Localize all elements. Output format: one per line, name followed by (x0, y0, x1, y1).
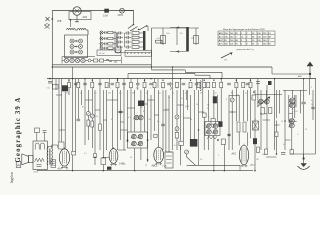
wire (99, 33, 101, 49)
capacitor C1 (74, 82, 78, 84)
svg-text:0,1: 0,1 (188, 88, 191, 90)
wire (170, 27, 186, 29)
wire (87, 90, 89, 112)
mains cord entry (45, 24, 50, 27)
wire (183, 117, 190, 119)
resistor R57 (252, 95, 256, 100)
wire (134, 90, 136, 115)
fuse resistor bumps (67, 28, 76, 30)
wire riser (184, 70, 186, 72)
capacitor C32 (227, 133, 231, 135)
connector bar (143, 31, 145, 51)
tube heater H1 (64, 58, 68, 62)
wire riser (194, 74, 196, 76)
svg-text:A02: A02 (83, 15, 88, 19)
svg-text:50: 50 (80, 93, 82, 95)
svg-text:gemessen bei 1 g: gemessen bei 1 g (237, 49, 255, 51)
wire (223, 145, 225, 171)
wire (229, 95, 239, 97)
wire heater bus (52, 64, 151, 66)
capacitor C9 (182, 82, 186, 84)
resistor R3 (91, 82, 94, 87)
tube V4 AK2 (239, 145, 248, 164)
wire (120, 90, 122, 140)
wire (247, 132, 249, 146)
svg-text:a: a (110, 88, 111, 90)
wire (118, 149, 126, 151)
capacitor C11 (118, 36, 120, 39)
resistor R11 (189, 82, 192, 87)
wire (140, 148, 142, 160)
mains switch S1 (128, 25, 134, 29)
field coil box (33, 141, 47, 170)
resistor R41 (100, 59, 104, 62)
junction (224, 170, 226, 172)
wire (186, 90, 188, 100)
svg-text:0,05: 0,05 (294, 111, 298, 113)
wire (228, 95, 230, 150)
voltage table (218, 31, 275, 46)
resistor R17 (235, 82, 238, 87)
svg-text:C50: C50 (47, 88, 50, 90)
resistor R40 (59, 142, 65, 149)
wire (299, 90, 301, 114)
speaker LS (22, 154, 29, 165)
wire (176, 131, 178, 150)
junction (94, 157, 96, 159)
wire (121, 129, 128, 131)
wire (213, 90, 215, 122)
wire (176, 119, 178, 127)
wire (309, 79, 311, 95)
capacitor C14 (126, 31, 128, 34)
wire (150, 95, 152, 140)
coupling capacitor C51 (35, 128, 40, 133)
wire (124, 33, 126, 47)
wire screen bus (152, 69, 186, 71)
coil L11 (213, 96, 217, 103)
resistor R5 (116, 82, 119, 87)
svg-text:50: 50 (311, 104, 313, 106)
wire (186, 28, 188, 45)
coil L13 (268, 81, 272, 85)
wire (291, 108, 293, 119)
wire (109, 79, 111, 88)
capacitor C31 (161, 123, 165, 125)
resistor R11 (132, 36, 139, 39)
wire (117, 79, 119, 150)
svg-text:50: 50 (130, 157, 132, 159)
wire (217, 95, 219, 121)
resistor R18 (242, 82, 245, 87)
wire (257, 79, 259, 108)
svg-text:GL GL: GL GL (99, 53, 106, 55)
resistor R42 (101, 158, 106, 165)
wire (289, 113, 293, 115)
wire (157, 79, 159, 88)
wire (52, 10, 133, 12)
capacitor C20 (104, 42, 106, 45)
svg-text:4: 4 (255, 119, 256, 121)
wire (102, 156, 109, 158)
wire (266, 104, 268, 150)
wire (303, 79, 305, 102)
wire (199, 111, 205, 113)
junction (276, 153, 278, 155)
svg-text:50: 50 (200, 93, 202, 95)
svg-text:50: 50 (190, 119, 192, 121)
svg-text:25: 25 (305, 129, 307, 131)
svg-text:4504: 4504 (185, 106, 189, 108)
wire (116, 33, 118, 47)
wire (95, 109, 100, 111)
resistor R7 (143, 82, 146, 87)
wire (166, 151, 173, 153)
wire (140, 90, 142, 115)
wire (238, 95, 240, 121)
wire (176, 28, 178, 45)
wire (170, 51, 186, 53)
lamp housing box (69, 12, 91, 20)
wire (116, 33, 118, 49)
wire riser (209, 75, 211, 78)
svg-text:2: 2 (218, 155, 219, 157)
wire (87, 126, 89, 140)
coil L20 (106, 59, 112, 62)
svg-text:Geographic 39 A: Geographic 39 A (15, 97, 22, 163)
wire (276, 121, 278, 133)
wire (255, 94, 282, 96)
resistor R19 (108, 37, 113, 39)
svg-text:30: 30 (168, 97, 170, 99)
svg-text:0,1: 0,1 (66, 93, 69, 95)
svg-text:8: 8 (143, 111, 144, 113)
wire (231, 90, 233, 98)
wire (247, 90, 249, 121)
mains plug X1 (46, 17, 50, 21)
wire (147, 90, 149, 162)
wire (250, 79, 252, 139)
svg-text:ABC1: ABC1 (152, 164, 159, 167)
wire bus segment (195, 74, 210, 76)
junction (127, 140, 129, 142)
svg-text:Ingelen: Ingelen (10, 172, 14, 183)
tube heater H3 (75, 58, 79, 62)
wire (207, 136, 209, 151)
resistor R12 (197, 82, 200, 87)
resistor R45 (179, 141, 184, 145)
svg-text:0,5: 0,5 (119, 93, 122, 95)
blocking capacitor C41 (107, 167, 111, 170)
tube heater H2 (70, 58, 74, 62)
junction (260, 113, 262, 115)
wire (195, 28, 197, 45)
selector contact pair row 3 (70, 50, 74, 54)
svg-text:30: 30 (82, 107, 84, 109)
wire (72, 67, 74, 171)
wire (239, 165, 241, 170)
wire (291, 90, 293, 98)
coil L21 (200, 81, 201, 91)
electrolytic capacitor C30 plate (186, 27, 189, 52)
antenna (309, 62, 311, 79)
terminal strip box (97, 50, 121, 56)
wire (124, 11, 133, 25)
resistor R13 (203, 82, 206, 87)
wire (276, 90, 278, 118)
wire (91, 127, 93, 148)
wire bus segment (185, 71, 222, 73)
wire (64, 92, 66, 149)
wire AVC (290, 153, 316, 155)
wire (151, 28, 153, 67)
svg-text:50: 50 (146, 93, 148, 95)
switch contact SW1 (100, 31, 103, 34)
wire (291, 128, 293, 150)
IF transformer coil L1a (134, 115, 139, 120)
selector contact pair row 1 (70, 39, 74, 43)
wire (154, 79, 156, 131)
junction (72, 78, 74, 80)
resistor R22 (156, 40, 163, 43)
wire (37, 170, 39, 171)
svg-text:0,1: 0,1 (207, 105, 210, 107)
svg-text:0,1: 0,1 (283, 144, 286, 146)
connector strip with dots (125, 50, 152, 56)
coil L12 (218, 121, 222, 127)
svg-text:5000: 5000 (262, 154, 266, 156)
IF transformer T3 (259, 99, 264, 104)
svg-text:0,1: 0,1 (96, 116, 99, 118)
svg-text:0,1: 0,1 (94, 93, 97, 95)
resistor R44 (202, 113, 206, 117)
switch contact SW4 (100, 47, 103, 50)
capacitor C53 (281, 152, 286, 154)
wire (147, 26, 149, 31)
wire (266, 90, 268, 105)
svg-text:0,5A: 0,5A (103, 15, 108, 18)
wire (115, 52, 152, 54)
svg-text:1k2: 1k2 (114, 60, 119, 63)
wire (274, 79, 276, 150)
resistor R19 (249, 82, 252, 87)
wire (168, 95, 170, 152)
capacitor C10 (118, 32, 120, 35)
resistor R62 (94, 154, 97, 158)
bias network block frame (114, 31, 116, 53)
IF transformer T1 (128, 132, 148, 148)
svg-text:0,3: 0,3 (162, 88, 165, 90)
wire (155, 114, 159, 116)
coil L14 (253, 138, 257, 144)
svg-text:ANT: ANT (298, 75, 303, 78)
svg-text:=AK2: =AK2 (250, 163, 256, 166)
svg-text:0,1: 0,1 (132, 30, 135, 32)
capacitor C2 (83, 82, 87, 84)
wire (294, 95, 296, 118)
capacitor C13 (118, 46, 120, 49)
wire (176, 90, 178, 115)
wire (238, 132, 240, 145)
wire (182, 90, 184, 141)
wire (91, 79, 93, 114)
tube V2 ABL (109, 149, 118, 164)
svg-text:5: 5 (226, 99, 227, 101)
svg-text:m: m (192, 37, 194, 40)
heater chain bracket (62, 57, 95, 64)
wire (75, 79, 77, 152)
wire (289, 120, 297, 122)
wire (99, 79, 101, 124)
coil L10 (62, 85, 68, 91)
junction (151, 66, 153, 68)
wire riser (151, 67, 153, 70)
resistor R58 (257, 147, 260, 153)
capacitor C12 (118, 41, 120, 44)
wire (180, 146, 182, 166)
wire (128, 107, 135, 109)
switch lamp LA2 (120, 8, 125, 13)
wire (193, 90, 195, 139)
tube heater H4 (81, 58, 85, 62)
wire chassis bus (47, 78, 316, 80)
resistor R10 (176, 82, 179, 87)
svg-text:5k: 5k (123, 88, 125, 90)
junction (231, 111, 233, 113)
wire bottom bus (37, 170, 253, 172)
resistor R40 (94, 59, 98, 62)
resistor R36 (243, 122, 246, 132)
svg-text:0,5: 0,5 (166, 109, 169, 111)
trimmer capacitor CT1 (86, 112, 90, 116)
wire (99, 131, 101, 151)
wire (163, 109, 169, 111)
capacitor C10 (195, 82, 199, 84)
wire (254, 90, 256, 138)
wire riser (221, 72, 223, 78)
junction (147, 139, 149, 141)
svg-text:0,1: 0,1 (311, 100, 314, 102)
resistor R21 (108, 47, 113, 49)
wire (58, 79, 60, 142)
wire (285, 139, 291, 141)
output tube V1 AL4 (59, 149, 69, 166)
wire (112, 99, 117, 101)
wire (315, 79, 317, 154)
svg-text:0,1: 0,1 (136, 88, 139, 90)
wire (266, 156, 277, 158)
svg-text:0,1: 0,1 (236, 95, 239, 97)
selector contact pair row 2 (70, 45, 74, 49)
svg-text:25: 25 (145, 165, 147, 167)
resistor R10 (132, 32, 139, 35)
trimmer capacitor CT4 (175, 127, 179, 131)
wire (235, 79, 237, 122)
annotation arrow (221, 53, 232, 58)
resistor R4 (105, 82, 108, 87)
wire (283, 90, 307, 92)
wire (263, 119, 270, 121)
junction (103, 170, 105, 172)
wire (107, 99, 113, 101)
wire (87, 116, 89, 121)
junction (84, 78, 86, 80)
capacitor C12 (246, 82, 250, 84)
resistor R2 (77, 82, 80, 87)
wire (172, 67, 174, 150)
wire (148, 99, 155, 101)
wire (213, 136, 215, 171)
svg-text:0,2: 0,2 (128, 117, 131, 119)
resistor R39 (275, 132, 278, 137)
wire (81, 90, 83, 105)
output transformer TR1 (47, 148, 48, 165)
junction (228, 134, 230, 136)
svg-text:+100: +100 (156, 38, 160, 40)
wire bus segment (128, 73, 195, 75)
wire (190, 95, 192, 139)
wire (48, 147, 52, 149)
coil L15 (138, 101, 144, 107)
resistor R41 (72, 151, 76, 155)
wire (103, 119, 106, 121)
wire (303, 104, 305, 158)
wave trap coil L7 (253, 121, 259, 130)
capacitor C39 (302, 101, 306, 103)
wire (61, 79, 63, 148)
wire riser (127, 74, 129, 79)
capacitor C5 (122, 82, 126, 84)
wire (288, 95, 290, 121)
fuse F1 (104, 9, 109, 13)
capacitor C11 (227, 82, 231, 84)
resistor R13 (132, 46, 139, 49)
wire (144, 79, 146, 132)
wire (36, 133, 38, 142)
wire antenna feed (272, 73, 310, 75)
capacitor C40 (256, 81, 260, 83)
capacitor C16 (126, 40, 128, 43)
resistor R30 (87, 120, 90, 126)
heater small lamp (88, 59, 91, 62)
wire (152, 27, 200, 29)
tuning arrow (258, 97, 270, 107)
switch contact SW3 (100, 42, 103, 45)
wire (187, 90, 189, 110)
wire HT bus (52, 66, 272, 68)
wire (56, 94, 62, 96)
resistor R21 (194, 36, 199, 44)
wire (127, 90, 129, 140)
resistor R15 (212, 82, 215, 87)
resistor R47 (211, 119, 215, 125)
resistor R33 (175, 132, 178, 138)
wire (203, 117, 205, 150)
junction (172, 66, 174, 68)
wire (177, 104, 183, 106)
wire (261, 113, 267, 115)
resistor R38 (269, 108, 272, 114)
wire (231, 102, 233, 150)
svg-text:Werte der Spannungen an den Ro: Werte der Spannungen an den Roehren 220V (223, 28, 265, 31)
svg-text:0,2: 0,2 (200, 159, 203, 161)
resistor R37 (261, 108, 264, 115)
wire (158, 90, 160, 147)
wire (229, 111, 236, 113)
wire (266, 85, 268, 99)
wire (84, 79, 86, 145)
switch contact SW2 (100, 37, 103, 40)
